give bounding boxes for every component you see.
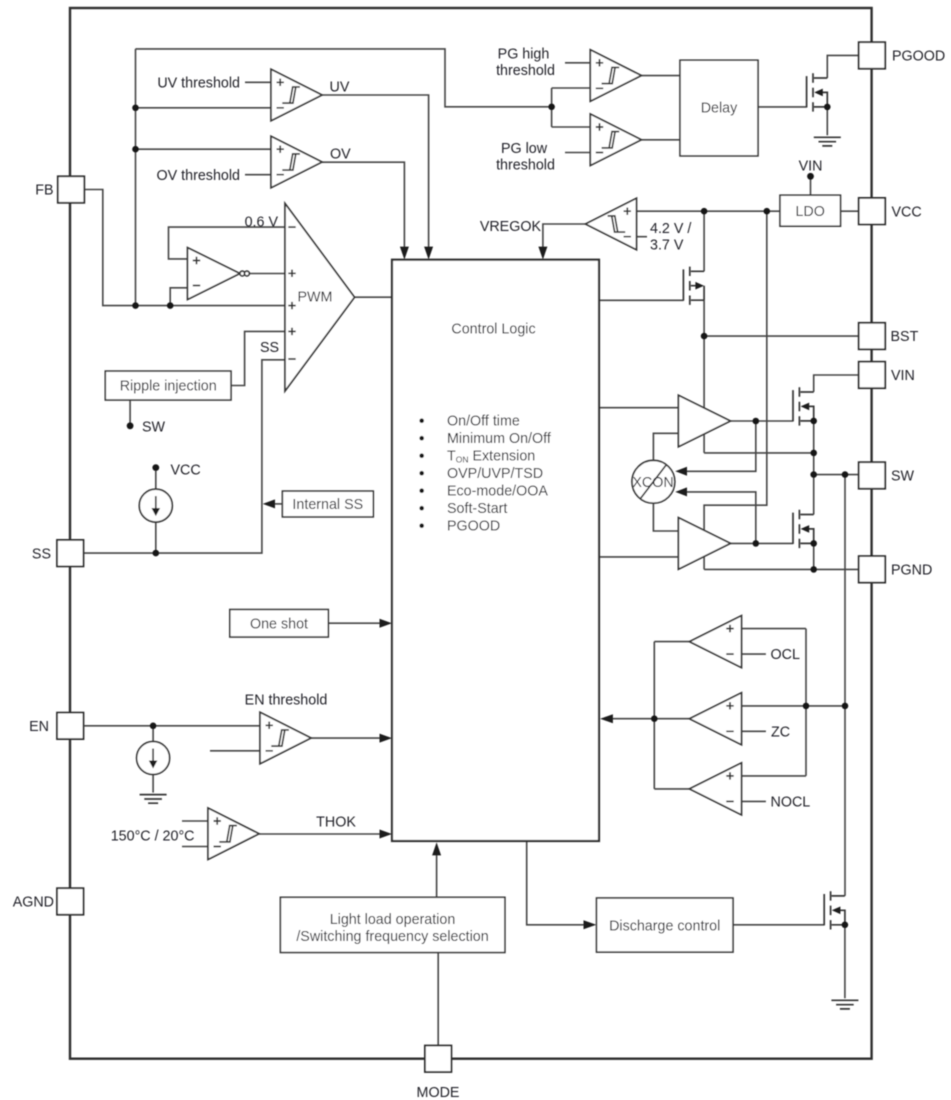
svg-text:/Switching frequency selection: /Switching frequency selection [296, 929, 488, 945]
net SW stub [142, 420, 166, 436]
svg-text:NOCL: NOCL [771, 795, 811, 811]
pin BST [859, 323, 886, 350]
net VREGOK [480, 219, 542, 235]
node comparator output junction [651, 715, 658, 722]
wire pgood fet source to ground [826, 107, 828, 135]
wire BST node to highside source rail [704, 452, 814, 454]
node SW junction right [842, 471, 849, 478]
wire SW pin line [814, 474, 859, 476]
svg-text:VREGOK: VREGOK [480, 219, 542, 235]
arrow internal SS to SS line [263, 499, 275, 508]
pin label EN [29, 719, 49, 735]
label 0.6 V [245, 214, 279, 230]
label 150C 20C [111, 829, 195, 845]
wire OV comparator plus input [136, 148, 272, 150]
svg-text:Delay: Delay [701, 101, 738, 117]
svg-text:BST: BST [891, 329, 919, 345]
label LDO [795, 204, 824, 220]
svg-text:PG high: PG high [498, 47, 550, 63]
wire VCC stub to SS current source [155, 471, 157, 489]
label 4.2V 3.7V [650, 221, 691, 254]
node VCC stub dot [152, 464, 159, 471]
wire light load box to control logic [436, 855, 438, 897]
svg-text:On/Off time: On/Off time [447, 414, 520, 430]
svg-text:Soft-Start: Soft-Start [447, 501, 507, 517]
arrow into discharge control [584, 920, 597, 929]
wire ZC plus input from SW sense [742, 705, 846, 707]
wire PGND pin line [704, 568, 859, 570]
label internal SS [292, 497, 363, 513]
svg-text:MODE: MODE [417, 1085, 460, 1100]
wire ripple injection SW stub [129, 400, 131, 423]
svg-text:UV: UV [330, 80, 350, 96]
label XCON [632, 475, 673, 491]
op-amp OV comparator [271, 136, 322, 188]
wire ZC minus stub [742, 730, 766, 732]
svg-text:0.6 V: 0.6 V [245, 214, 279, 230]
svg-text:AGND: AGND [13, 895, 54, 911]
wire EN threshold minus stub [210, 750, 260, 752]
node FB line junction [132, 302, 139, 309]
svg-text:PGOOD: PGOOD [892, 49, 945, 65]
svg-text:VIN: VIN [891, 368, 915, 384]
wire bst switch drain up to LDO line [703, 211, 705, 271]
label PG high threshold [496, 47, 555, 79]
ground below discharge fet [831, 1000, 858, 1009]
wire lower driver output to lowside gate [730, 542, 793, 544]
buffer lower gate driver [678, 518, 730, 570]
svg-text:PGOOD: PGOOD [447, 519, 500, 535]
wire upper driver output down to XCON arrow [687, 421, 756, 471]
node PG threshold junction [548, 104, 555, 111]
svg-text:VIN: VIN [799, 159, 823, 175]
wire comparator output rail [653, 642, 655, 789]
svg-text:threshold: threshold [496, 63, 555, 79]
wire FB pin to feedback node [85, 190, 285, 306]
light load operation block [280, 897, 505, 952]
ripple injection block [105, 371, 231, 400]
pin PGOOD [859, 42, 886, 68]
pin PGND [859, 556, 886, 583]
svg-text:150°C / 20°C: 150°C / 20°C [111, 829, 195, 845]
label EN threshold [245, 693, 328, 709]
wire OCL plus input [742, 628, 807, 630]
wire SS net to PWM minus [84, 360, 286, 553]
svg-text:PWM: PWM [298, 290, 333, 306]
node BST rail junction [810, 450, 817, 457]
transistor discharge fet [824, 891, 845, 929]
label ripple injection [120, 379, 217, 395]
pin SW [859, 462, 886, 489]
transistor BST switch fet [683, 267, 704, 305]
svg-text:threshold: threshold [496, 157, 555, 173]
wire NOCL plus input [742, 775, 807, 777]
svg-text:4.2 V /: 4.2 V / [650, 221, 691, 237]
one shot block [230, 610, 328, 638]
wire highside source rail down to lowside drain [813, 421, 815, 515]
pin label PGOOD [892, 49, 945, 65]
label light load operation [296, 912, 488, 945]
svg-text:SW: SW [891, 469, 915, 485]
ground below pgood fet [814, 137, 841, 146]
svg-text:FB: FB [35, 183, 53, 199]
node SW sense at ZC [842, 703, 849, 710]
svg-text:SS: SS [32, 547, 51, 563]
node error amp tap [167, 302, 174, 309]
wire PG high output to delay [641, 75, 680, 77]
pin SS [57, 540, 84, 567]
op-amp EN threshold comparator [260, 712, 311, 764]
op-amp error amplifier [188, 248, 250, 300]
arrow one shot into control logic [380, 619, 393, 628]
wire highside drain to VIN pin [814, 375, 859, 392]
net VCC stub [171, 463, 201, 479]
buffer upper gate driver [678, 395, 730, 447]
label UV threshold [157, 76, 240, 92]
svg-text:PGND: PGND [891, 563, 932, 579]
current source EN pulldown [137, 742, 170, 775]
node lowside source [810, 540, 817, 547]
internal SS block [282, 491, 373, 517]
arrow into XCON upper [675, 467, 687, 476]
wire PG high minus input [552, 87, 591, 89]
LDO block [780, 195, 841, 226]
wire bst switch source down to BST node [703, 300, 705, 453]
op-amp thermal comparator [208, 808, 259, 860]
wire LDO to VCC pin [841, 210, 859, 212]
pin label SS [32, 547, 51, 563]
wire ripple injection to PWM [231, 331, 285, 385]
svg-text:OV threshold: OV threshold [157, 168, 240, 184]
wire NOCL output [654, 788, 689, 790]
node EN line junction [150, 723, 157, 730]
arrow OV into control logic [400, 247, 409, 260]
label one shot [250, 616, 308, 632]
discharge control block [597, 898, 734, 952]
pin label BST [891, 329, 919, 345]
wire OCL minus stub [742, 653, 766, 655]
wire EN comparator output [311, 737, 380, 739]
transistor PGOOD pulldown fet [807, 73, 828, 111]
label OV threshold [157, 168, 240, 184]
pin AGND [57, 888, 84, 915]
wire discharge fet source to ground [844, 925, 846, 999]
svg-text:OVP/UVP/TSD: OVP/UVP/TSD [447, 466, 543, 482]
svg-text:EN threshold: EN threshold [245, 693, 328, 709]
label PG low threshold [496, 141, 555, 173]
svg-text:3.7 V: 3.7 V [650, 238, 684, 254]
wire PG high threshold stub [565, 62, 590, 64]
pin label SW [891, 469, 915, 485]
arrow into XCON lower [675, 487, 687, 496]
transistor highside fet [793, 387, 814, 425]
control logic block [392, 260, 599, 841]
wire OCL output [654, 641, 689, 643]
svg-text:SW: SW [142, 420, 166, 436]
ground below EN current source [140, 795, 167, 804]
wire VREGOK plus input to LDO line [637, 210, 781, 212]
wire lowside source to PGND line [813, 543, 815, 569]
svg-text:ZC: ZC [771, 724, 790, 740]
svg-text:SS: SS [260, 340, 279, 356]
label discharge control [609, 918, 720, 934]
svg-text:Light load operation: Light load operation [330, 912, 456, 928]
pin label AGND [13, 895, 54, 911]
node LDO input right [764, 208, 771, 215]
svg-text:Minimum On/Off: Minimum On/Off [447, 431, 551, 447]
XCON block [632, 460, 675, 503]
node SW stub dot [127, 422, 134, 429]
node SS line junction [153, 550, 160, 557]
label control logic [451, 322, 535, 338]
wire THOK minus stub [182, 846, 208, 848]
net UV [330, 80, 350, 96]
node highside source [810, 418, 817, 425]
pin label FB [35, 183, 53, 199]
wire THOK plus stub [182, 820, 208, 822]
wire PG low output to delay [641, 139, 680, 141]
net SS internal [260, 340, 279, 356]
op-amp VREGOK comparator [586, 198, 637, 250]
wire error amp output to PWM [249, 273, 285, 275]
arrow UV into control logic [424, 247, 433, 260]
wire bst switch gate from control logic [599, 299, 683, 301]
arrow light load into control logic [432, 842, 441, 855]
wire UV threshold stub [245, 81, 271, 83]
svg-text:Discharge control: Discharge control [609, 918, 720, 934]
svg-text:LDO: LDO [795, 204, 824, 220]
node FB sense OV tap [132, 146, 139, 153]
delay block [680, 60, 758, 156]
wire PWM output to control logic [355, 296, 393, 298]
wire VIN stub to LDO [810, 179, 812, 196]
wire MODE pin to light load box [437, 953, 439, 1046]
net VIN stub [799, 159, 823, 175]
wire delay output to pgood fet gate [758, 106, 807, 108]
wire VREGOK comparator output to control logic [543, 224, 586, 247]
node FB sense UV tap [132, 105, 139, 112]
pin label VCC [892, 204, 922, 220]
wire one shot arrow to control logic [328, 622, 380, 624]
svg-text:Internal SS: Internal SS [292, 497, 363, 513]
wire internal VCC rail down to driver area [704, 211, 767, 569]
pin VCC [859, 198, 886, 225]
wire FB sense vertical [135, 49, 137, 306]
wire upper driver output to highside gate [730, 420, 793, 422]
node SW junction left [810, 471, 817, 478]
pin VIN [859, 362, 886, 389]
svg-text:THOK: THOK [316, 815, 356, 831]
arrow VREGOK into control logic [538, 247, 547, 260]
op-amp OCL comparator [690, 616, 742, 668]
pin label VIN [891, 368, 915, 384]
wire error amp minus from FB node [170, 288, 187, 306]
svg-text:VCC: VCC [171, 463, 201, 479]
wire NOCL minus stub [742, 800, 766, 802]
net OCL [771, 647, 800, 663]
node VIN stub dot [807, 173, 814, 180]
op-amp PG high comparator [590, 50, 641, 102]
wire PG low plus input [552, 126, 591, 128]
pin label MODE [417, 1085, 460, 1100]
wire discharge control to fet gate [733, 924, 824, 926]
net THOK [316, 815, 356, 831]
wire ZC output to control logic [613, 718, 690, 720]
net NOCL [771, 795, 811, 811]
wire lower driver output up to XCON arrow [687, 492, 756, 544]
wire internal SS arrow [275, 503, 283, 505]
svg-text:PG low: PG low [501, 141, 548, 157]
op-amp NOCL comparator [690, 763, 742, 815]
net ZC [771, 724, 790, 740]
svg-text:VCC: VCC [892, 204, 922, 220]
wire PG junction vertical [551, 88, 553, 127]
node PGND junction [810, 566, 817, 573]
arrow EN threshold into control logic [380, 734, 393, 743]
wire THOK output [259, 833, 380, 835]
svg-text:Ripple injection: Ripple injection [120, 379, 217, 395]
wire UV output to control logic [322, 95, 429, 247]
wire upper driver input from control logic [599, 407, 678, 409]
net PWM [298, 290, 333, 306]
node upper driver output [753, 418, 760, 425]
wire UV comparator minus input [136, 107, 272, 109]
wire control logic to discharge control [527, 841, 584, 925]
pin EN [57, 713, 84, 740]
arrow THOK into control logic [380, 830, 393, 839]
wire BST pin line [704, 335, 859, 337]
svg-text:Eco-mode/OOA: Eco-mode/OOA [447, 484, 548, 500]
arrow comparator output into control logic [600, 714, 613, 723]
current source SS charge [139, 489, 172, 522]
wire EN current source to ground [152, 774, 154, 793]
wire lower driver input from control logic [599, 556, 678, 558]
wire SW sense rail down to discharge fet drain [844, 475, 846, 896]
pin FB [58, 176, 85, 203]
wire 4.2V threshold stub [637, 236, 648, 238]
net OV [330, 147, 351, 163]
node discharge fet source [842, 922, 849, 929]
wire 0.6V reference loop [169, 227, 286, 259]
wire SS current source to SS line [155, 522, 157, 553]
svg-text:Control Logic: Control Logic [451, 322, 535, 338]
svg-text:OCL: OCL [771, 647, 800, 663]
wire XCON to upper driver input [653, 433, 678, 460]
node LDO input left [701, 208, 708, 215]
wire EN current source top [152, 726, 154, 742]
op-amp ZC comparator [690, 693, 742, 745]
node comparator plus rail junction [803, 703, 810, 710]
pin MODE [425, 1046, 452, 1073]
wire comparator plus rail [805, 629, 807, 776]
wire pgood fet drain to PGOOD pin [827, 55, 858, 78]
wire EN pin to comparator [84, 725, 260, 727]
svg-text:EN: EN [29, 719, 49, 735]
label delay [701, 101, 738, 117]
svg-text:UV threshold: UV threshold [157, 76, 240, 92]
node lower driver output [753, 540, 760, 547]
wire OV threshold stub [245, 174, 271, 176]
node pgood fet source [824, 104, 831, 111]
op-amp PG low comparator [590, 114, 641, 166]
node BST junction [701, 333, 708, 340]
pin label PGND [891, 563, 932, 579]
wire FB top loop to PG comparators [136, 49, 552, 107]
svg-text:XCON: XCON [632, 475, 673, 491]
wire XCON to lower driver input [653, 503, 678, 531]
svg-text:One shot: One shot [250, 616, 308, 632]
op-amp UV comparator [271, 69, 322, 121]
wire OV output to control logic [322, 162, 404, 247]
svg-text:OV: OV [330, 147, 351, 163]
op-amp PWM comparator [285, 204, 355, 392]
list control logic functions [419, 414, 550, 535]
transistor lowside fet [793, 510, 814, 548]
wire PG low threshold stub [565, 152, 590, 154]
